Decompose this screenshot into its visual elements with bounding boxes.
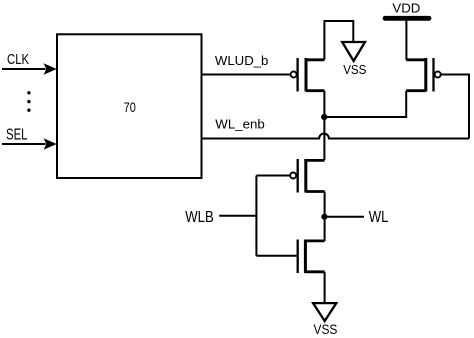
wire M1 drain down to junction (323, 91, 325, 117)
ground VSS (top) (342, 42, 365, 61)
svg-text:CLK: CLK (7, 51, 29, 68)
wire SEL input (2, 138, 57, 150)
junction node (WLUD/WL_enb drain tie) (321, 114, 327, 120)
node WL junction (321, 214, 327, 220)
wire junction to M2 drain (324, 91, 406, 117)
svg-text:70: 70 (124, 100, 137, 115)
svg-text:WL: WL (369, 209, 389, 226)
transistor M2 (PMOS, gate right) (406, 58, 441, 92)
wire M2 gate to WL_enb (right side) (441, 75, 469, 139)
transistor M1 (PMOS, gate left) (291, 58, 325, 92)
power VDD bar (385, 16, 429, 21)
svg-text:WLUD_b: WLUD_b (215, 53, 269, 68)
wire WL stub (324, 216, 364, 218)
svg-text:VSS: VSS (314, 322, 338, 337)
wire M4 drain up to WL node (324, 217, 326, 241)
svg-text:WLB: WLB (185, 209, 213, 226)
transistor M3 (PMOS, gate left) (290, 159, 324, 193)
block U70 (box "70") (57, 34, 202, 178)
wire M4 source down to VSS (324, 272, 326, 303)
wire junction down through hop to M3 source (323, 117, 325, 160)
svg-text:VDD: VDD (392, 0, 420, 15)
wire WL_enb (box output, hops over vertical, to right vertical) (202, 134, 470, 139)
transistor M4 (NMOS, gate left) (298, 240, 325, 274)
wire WLB to inverter gates (219, 176, 296, 256)
wire M1 source to VSS (up and over) (324, 21, 353, 60)
svg-text:VSS: VSS (343, 62, 366, 77)
wire VDD to M2 source (405, 21, 407, 60)
wire M3 drain down to WL node (324, 192, 326, 218)
wire WLUD_b (box output to M1 gate) (202, 74, 291, 76)
vertical ellipsis (27, 91, 30, 112)
svg-text:SEL: SEL (6, 126, 28, 143)
ground VSS (bottom) (313, 303, 336, 321)
svg-text:WL_enb: WL_enb (215, 116, 264, 131)
wire CLK input (2, 63, 57, 75)
